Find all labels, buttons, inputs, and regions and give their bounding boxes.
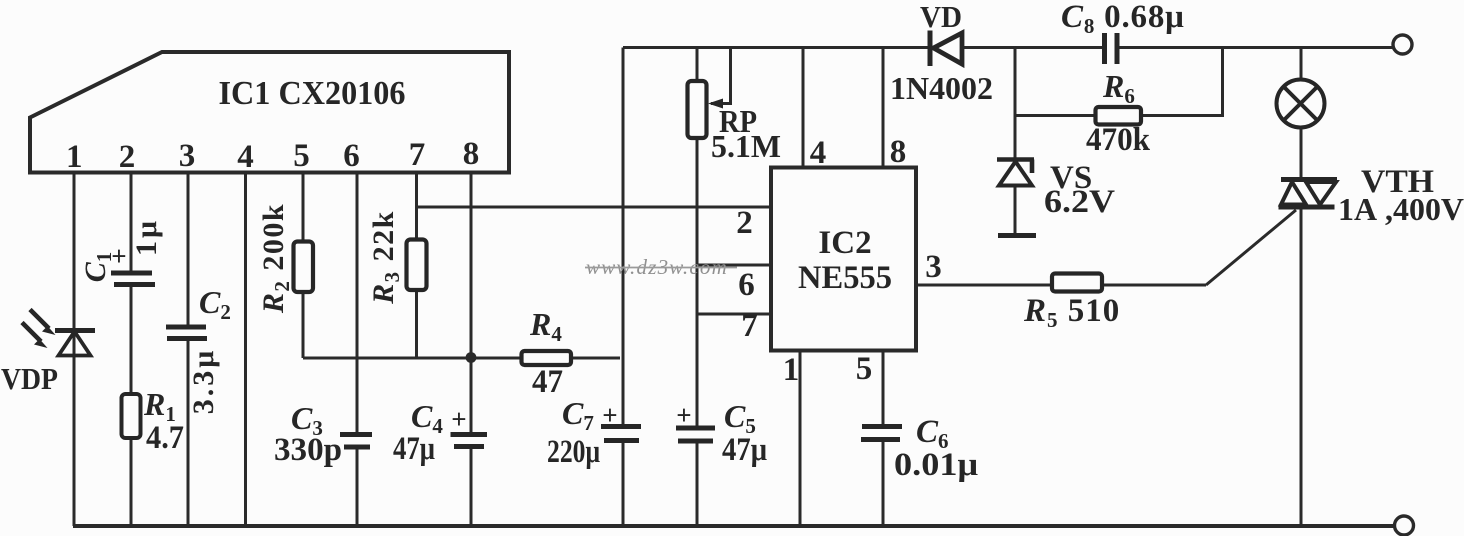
wire NE555 pin8 to top rail [882, 48, 885, 167]
svg-text:+: + [676, 400, 691, 430]
potentiometer RP [688, 81, 724, 138]
wire top rail VD to C8 [961, 46, 1102, 49]
svg-text:+: + [451, 404, 466, 434]
wire pin3 of IC1 down to C2 [187, 173, 190, 325]
IC IC1 CX20106 box [30, 52, 509, 173]
wire pin4 of IC1 down to bottom rail [244, 173, 247, 527]
svg-text:1A ,400V: 1A ,400V [1338, 191, 1464, 227]
svg-text:470k: 470k [1086, 122, 1151, 158]
wire top rail C8 to terminal [1120, 46, 1394, 49]
svg-text:6: 6 [343, 138, 360, 174]
svg-text:1: 1 [66, 139, 83, 175]
wire VS zener to bottom bar [1014, 186, 1017, 234]
wire pin8 of IC1 down to C4 [470, 173, 473, 433]
wire pin5 of IC1 through R2 down to bus [302, 173, 305, 359]
wire NE555 pin1 to bottom rail [799, 351, 802, 527]
zener diode VS [997, 160, 1036, 236]
capacitor C4 [451, 435, 488, 447]
junction dot pin8/C4/bus node [466, 352, 477, 363]
svg-text:3: 3 [179, 138, 196, 174]
wire IC1 pin7 to NE555 pin2 [417, 206, 771, 209]
svg-text:IC2: IC2 [818, 225, 871, 261]
wire top rail down to lamp [1300, 48, 1303, 81]
capacitor C6 [861, 427, 902, 440]
wire pin6 of IC1 down to C3 [356, 173, 359, 433]
svg-text:NE555: NE555 [798, 260, 892, 296]
terminal bottom right [1395, 516, 1414, 535]
wire C5 bottom to bottom rail [696, 444, 699, 527]
svg-text:1: 1 [783, 352, 800, 388]
wire top rail left corner down through C7 [622, 48, 625, 425]
svg-text:R5 510: R5 510 [1023, 293, 1120, 332]
svg-text:C8 0.68μ: C8 0.68μ [1061, 0, 1185, 38]
capacitor C3 [340, 435, 372, 448]
svg-text:7: 7 [409, 137, 426, 173]
IC IC2 NE555 box [771, 168, 916, 351]
wire RP wiper to top rail [711, 48, 731, 104]
svg-text:5: 5 [293, 138, 310, 174]
svg-text:+: + [602, 400, 617, 430]
lamp [1277, 80, 1325, 128]
svg-text:7: 7 [741, 308, 758, 344]
wire C1 bottom to R1 to bottom rail [130, 287, 133, 526]
watermark strikethrough [585, 267, 737, 269]
wire bottom rail [73, 524, 1395, 528]
wire top rail left segment to VD [623, 46, 929, 49]
wire lamp to triac [1300, 127, 1303, 177]
svg-text:R3 22k: R3 22k [367, 210, 404, 305]
resistor R1 [122, 394, 141, 438]
wire C3 bottom to bottom rail [356, 450, 359, 527]
svg-text:47: 47 [532, 364, 563, 400]
capacitor C7 [601, 427, 641, 441]
svg-text:IC1 CX20106: IC1 CX20106 [219, 75, 406, 112]
capacitor C2 [166, 327, 207, 339]
wire node to NE555 pin6 [697, 264, 770, 267]
wire C4 bottom to bottom rail [470, 449, 473, 526]
wire top rail to RP top [696, 48, 699, 82]
svg-text:VDP: VDP [1, 361, 58, 396]
capacitor C5 [676, 428, 715, 441]
svg-text:4: 4 [237, 139, 254, 175]
svg-text:4.7: 4.7 [146, 420, 184, 456]
resistor R2 [294, 242, 314, 293]
svg-text:0.01μ: 0.01μ [894, 447, 978, 483]
triac VTH [1279, 180, 1338, 208]
svg-text:1μ: 1μ [130, 218, 163, 256]
svg-text:R2 200k: R2 200k [257, 203, 294, 314]
svg-text:8: 8 [890, 134, 907, 170]
wire R6 left [1015, 114, 1096, 117]
svg-text:6: 6 [738, 267, 755, 303]
wire pin7 of IC1 through R3 down to bus [415, 173, 418, 359]
wire C6 bottom to bottom rail [882, 442, 885, 526]
resistor R6 [1096, 107, 1142, 125]
wire R6 right up to top rail [1141, 48, 1223, 116]
wire C7 bottom to bottom rail [622, 443, 625, 526]
wire pin1 of IC1 down to bottom rail [73, 173, 76, 527]
wire diagonal to triac gate [1206, 210, 1296, 285]
svg-text:3: 3 [925, 249, 942, 285]
wire R5 to gate bend [1102, 284, 1206, 287]
svg-text:8: 8 [463, 136, 480, 172]
wire RP bottom through pins 6,7 node down to C5 [696, 138, 699, 426]
wire node to NE555 pin7 [697, 313, 770, 316]
photodiode VDP [22, 310, 95, 356]
svg-text:5.1M: 5.1M [711, 128, 781, 164]
wire pin2 of IC1 down to C1 [130, 173, 133, 271]
svg-text:4: 4 [810, 135, 827, 171]
wire NE555 pin5 down to C6 [882, 351, 885, 425]
svg-text:2: 2 [119, 139, 136, 175]
capacitor C8 [1105, 33, 1118, 64]
terminal top right [1393, 35, 1412, 54]
wire NE555 pin4 to top rail [802, 48, 805, 167]
svg-text:3.3μ: 3.3μ [187, 348, 220, 415]
resistor R4 [522, 351, 572, 365]
svg-text:330p: 330p [274, 432, 342, 468]
wire top rail down to VS and R6 [1014, 48, 1017, 158]
resistor R3 [407, 240, 427, 291]
wire C2 bottom to bottom rail [187, 341, 190, 526]
svg-text:47μ: 47μ [393, 431, 435, 467]
svg-text:VD: VD [920, 0, 962, 34]
wire NE555 pin3 to R5 [917, 284, 1052, 287]
svg-text:220μ: 220μ [547, 434, 600, 470]
svg-text:6.2V: 6.2V [1044, 184, 1115, 220]
svg-text:1N4002: 1N4002 [890, 70, 993, 106]
svg-text:47μ: 47μ [722, 432, 767, 468]
wire horizontal bus pin5/pin7/pin8 junction with R4 [303, 357, 620, 360]
resistor R5 [1052, 274, 1102, 292]
diode VD 1N4002 [930, 31, 962, 67]
svg-text:2: 2 [736, 205, 753, 241]
capacitor C1 [111, 273, 155, 285]
svg-text:5: 5 [856, 351, 873, 387]
wire triac down to bottom rail [1300, 210, 1303, 527]
